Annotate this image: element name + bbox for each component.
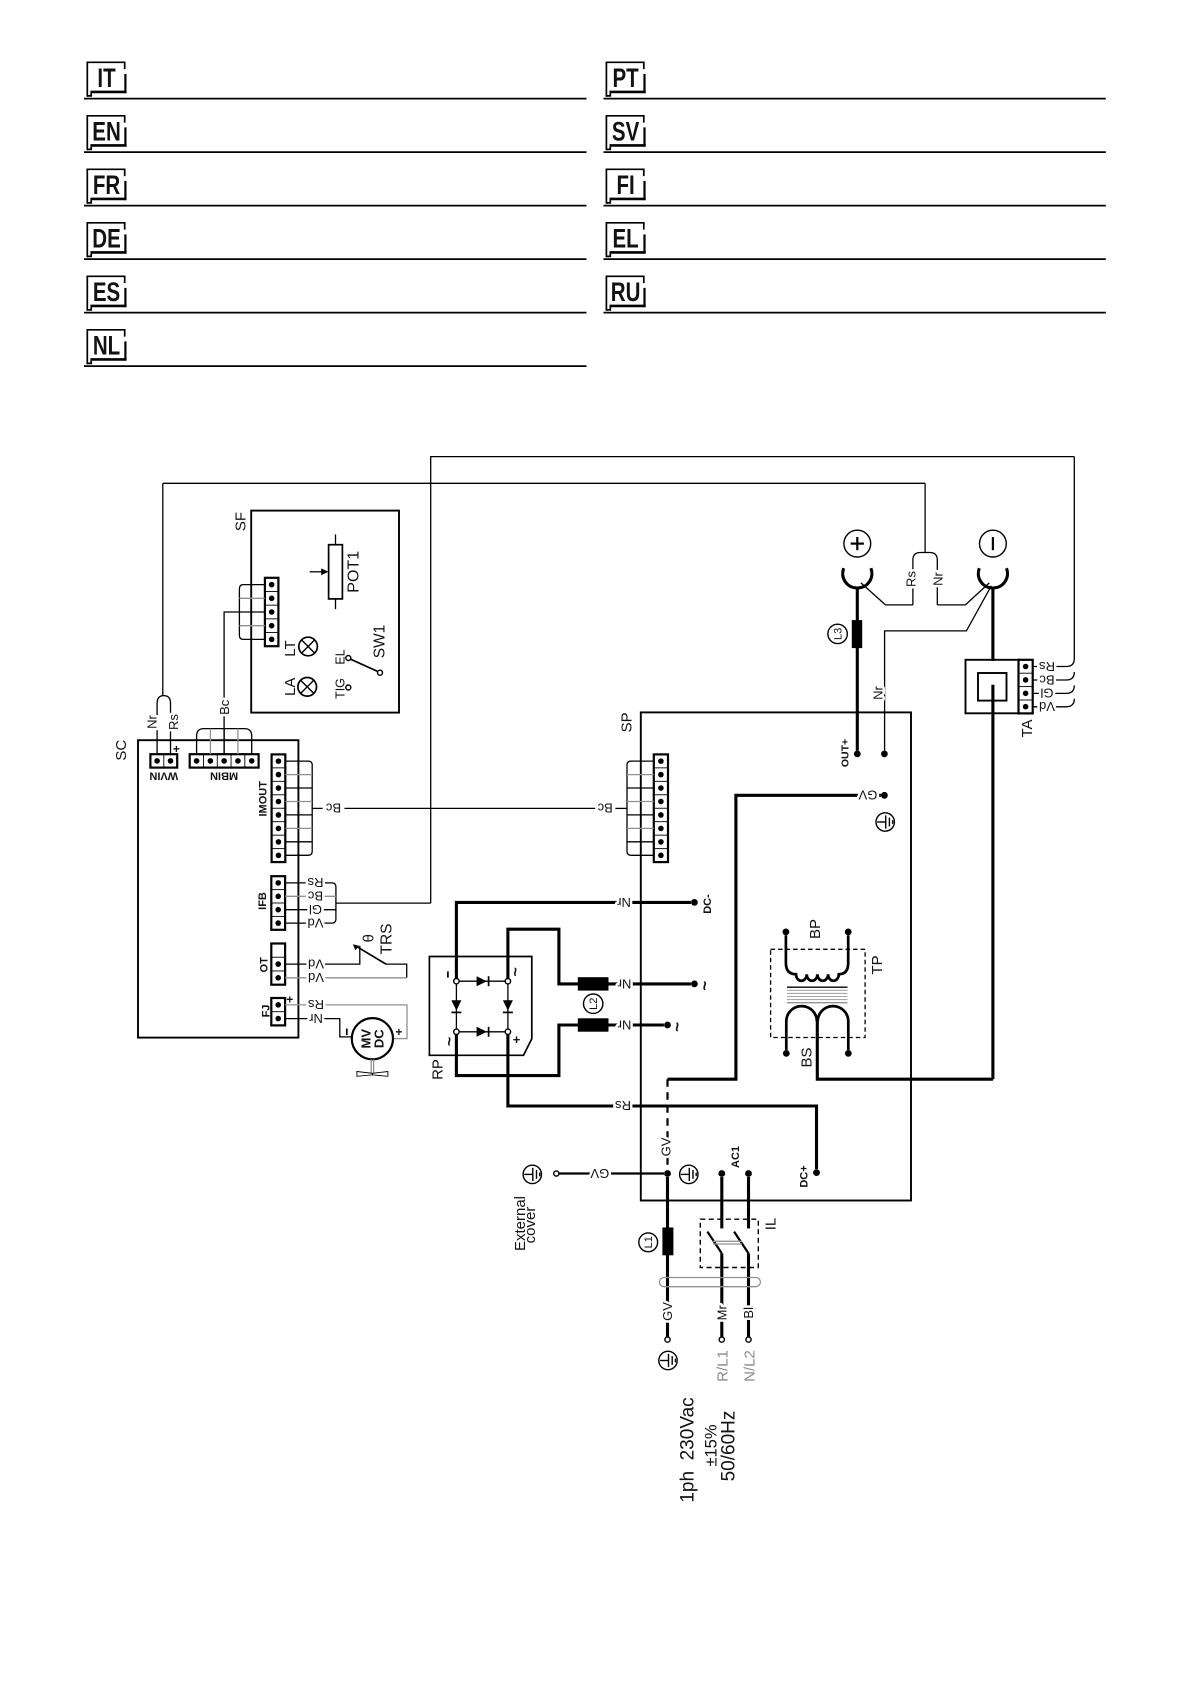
- node ~ bottom of bridge: [454, 1029, 459, 1034]
- wire Rs bridge + to SP DC+: [508, 1035, 817, 1170]
- wire Mr switch to terminal: [720, 1253, 723, 1337]
- rule under FR: [84, 205, 587, 207]
- svg-text:50/60Hz: 50/60Hz: [718, 1411, 739, 1482]
- svg-text:SV: SV: [612, 117, 639, 147]
- wire Nr bridge - to SP DC-: [456, 902, 691, 978]
- SP harness bracket: [627, 761, 654, 855]
- language tab FR: [87, 169, 126, 203]
- inductor L1: [662, 1228, 673, 1256]
- wire Rs FJ pin1 to fan motor +: [285, 1005, 407, 1039]
- svg-text:TIG: TIG: [333, 678, 347, 699]
- svg-text:GV: GV: [590, 1166, 609, 1181]
- socket + dinse: [843, 568, 872, 588]
- svg-text:~: ~: [695, 981, 714, 991]
- switch blade Mr: [707, 1232, 721, 1254]
- svg-text:N/L2: N/L2: [741, 1350, 758, 1382]
- svg-text:AC1: AC1: [730, 1146, 742, 1168]
- indicator lamp LA: [298, 678, 317, 697]
- switch link bar: [713, 1240, 742, 1242]
- svg-text:L2: L2: [588, 998, 600, 1010]
- svg-text:SF: SF: [233, 512, 250, 531]
- svg-text:EN: EN: [92, 117, 120, 147]
- wire - output to TA: [991, 587, 994, 661]
- wire bridge ~ bottom through L2 to SP: [456, 1025, 664, 1076]
- svg-text:+: +: [513, 1032, 521, 1047]
- svg-text:POT1: POT1: [346, 551, 363, 593]
- connector SF (5-pin): [265, 578, 279, 646]
- IFB harness bracket to TA bus: [285, 883, 336, 923]
- junction GV: [881, 792, 888, 799]
- svg-text:EL: EL: [334, 649, 348, 664]
- svg-text:BP: BP: [807, 919, 824, 939]
- svg-text:DE: DE: [92, 224, 121, 254]
- earth symbol at SP top: [876, 813, 894, 831]
- svg-text:R/L1: R/L1: [715, 1350, 732, 1382]
- wire thermostat to OT pin3: [386, 964, 407, 978]
- svg-text:Bc: Bc: [597, 801, 613, 816]
- svg-text:Rs: Rs: [308, 997, 324, 1012]
- svg-text:Vd: Vd: [1039, 699, 1055, 714]
- selector switch SW1: [346, 656, 351, 661]
- wire GV dashed to mains earth: [666, 1079, 668, 1170]
- connector WVIN (2-pin): [150, 754, 177, 767]
- svg-text:LA: LA: [282, 678, 299, 696]
- terminal external cover: [554, 1171, 559, 1176]
- inductor L3: [852, 620, 862, 648]
- svg-text:DC+: DC+: [798, 1165, 810, 1187]
- diode bottom: [477, 1027, 487, 1037]
- label - at motor: [346, 1029, 348, 1036]
- svg-text:OUT+: OUT+: [839, 739, 851, 767]
- svg-text:LT: LT: [282, 640, 299, 656]
- wire OT pin2 to thermostat: [285, 946, 360, 964]
- svg-text:Gl: Gl: [309, 902, 322, 917]
- thermostat TRS: [357, 947, 386, 964]
- svg-text:Rs: Rs: [615, 1098, 631, 1113]
- wire external cover to GV junction: [559, 1172, 664, 1174]
- fan motor MV DC: [352, 1018, 393, 1059]
- svg-text:ES: ES: [93, 277, 120, 307]
- svg-text:Nr: Nr: [144, 714, 159, 728]
- wire Nr FJ pin2 to fan motor -: [285, 1019, 352, 1037]
- svg-text:RU: RU: [611, 277, 641, 307]
- rule under FI: [604, 205, 1106, 207]
- IMOUT harness bracket: [285, 761, 312, 855]
- svg-text:FI: FI: [616, 170, 634, 200]
- wire Bl switch to terminal: [747, 1253, 750, 1337]
- svg-text:TP: TP: [869, 955, 886, 974]
- svg-text:Bc: Bc: [307, 889, 323, 904]
- svg-text:Nr: Nr: [308, 1011, 322, 1026]
- svg-text:FR: FR: [93, 170, 120, 200]
- wire + output through L3: [856, 587, 859, 750]
- junction ~ lower: [664, 1022, 671, 1029]
- language tab NL: [87, 330, 126, 364]
- svg-text:+: +: [395, 1025, 402, 1039]
- rule under DE: [84, 258, 587, 260]
- svg-text:Nr: Nr: [617, 977, 631, 992]
- junction DC-: [691, 899, 698, 906]
- wire Bc IMOUT to SP: [312, 807, 322, 809]
- TA bundle to IFB: [1033, 457, 1075, 667]
- rule under IT: [84, 98, 587, 100]
- wire net Nr/Rs to output sockets: [163, 482, 925, 484]
- rule under PT: [604, 98, 1106, 100]
- secondary winding BS: [786, 1006, 817, 1050]
- svg-text:Vd: Vd: [308, 915, 324, 930]
- terminal GV mains: [665, 1337, 670, 1342]
- svg-text:Bl: Bl: [741, 1307, 756, 1319]
- label L1: [639, 1233, 658, 1252]
- label L2: [584, 994, 603, 1013]
- svg-text:FJ: FJ: [260, 1005, 272, 1018]
- connector TA (4-pin): [1019, 660, 1033, 714]
- junction DC+: [813, 1169, 820, 1176]
- label L3: [828, 624, 847, 643]
- svg-text:Vd: Vd: [308, 956, 324, 971]
- rule under EL: [604, 258, 1106, 260]
- svg-text:Rs: Rs: [166, 714, 181, 730]
- potentiometer POT1: [329, 545, 343, 599]
- terminal Nr sense: [881, 751, 888, 758]
- svg-text:~: ~: [507, 967, 524, 976]
- rule under EN: [84, 151, 587, 153]
- terminal BS left: [783, 1050, 790, 1057]
- terminal Mr mains R/L1: [719, 1337, 724, 1342]
- earth symbol external cover: [523, 1165, 541, 1183]
- svg-text:~: ~: [667, 1022, 686, 1032]
- socket - dinse: [978, 568, 1007, 588]
- svg-text:+: +: [173, 742, 180, 756]
- fan propeller: [370, 1059, 372, 1073]
- rule under SV: [604, 151, 1106, 153]
- terminal BS right: [845, 1050, 852, 1057]
- power board SP box: [641, 712, 911, 1200]
- connector OT (3-pin): [271, 944, 285, 985]
- svg-text:PT: PT: [612, 63, 639, 93]
- rule under RU: [604, 312, 1106, 314]
- mains switch IL dashed box: [700, 1219, 758, 1267]
- TA inner box: [978, 673, 1007, 701]
- rule under NL: [84, 365, 587, 367]
- svg-text:Nr: Nr: [616, 895, 630, 910]
- connector MBIN (5-pin): [190, 754, 259, 767]
- language tab EN: [87, 116, 126, 150]
- rule under ES: [84, 312, 587, 314]
- SF connector harness bracket: [239, 585, 265, 640]
- svg-text:Rs: Rs: [1039, 659, 1055, 674]
- node + of bridge: [505, 1029, 510, 1034]
- cable sleeve: [660, 1278, 761, 1287]
- svg-text:Bc: Bc: [1039, 672, 1055, 687]
- transformer core: [787, 986, 848, 988]
- wire Mr AC1 to mains switch: [720, 1177, 723, 1228]
- svg-text:θ: θ: [361, 934, 378, 942]
- svg-text:Bc: Bc: [325, 801, 341, 816]
- wire Bc from SF pin 3 to MBIN: [224, 612, 265, 754]
- svg-text:L3: L3: [833, 628, 845, 640]
- svg-text:SC: SC: [113, 740, 130, 761]
- indicator lamp LT: [299, 637, 318, 656]
- svg-text:IMOUT: IMOUT: [257, 781, 269, 817]
- choke L2 winding 2: [578, 1018, 609, 1031]
- wire GV junction to mains: [666, 1177, 669, 1337]
- terminal AC1 left: [718, 1170, 725, 1177]
- svg-text:GV: GV: [858, 788, 877, 803]
- diode right: [503, 1000, 513, 1010]
- svg-text:GV: GV: [660, 1302, 675, 1321]
- connector IMOUT (8-pin): [272, 754, 286, 862]
- svg-text:MBIN: MBIN: [210, 769, 238, 781]
- earth symbol at GV junction: [680, 1165, 698, 1183]
- svg-text:TRS: TRS: [378, 924, 395, 955]
- wire Rs fork to + socket: [861, 583, 913, 605]
- switch blade Bl: [734, 1232, 748, 1254]
- svg-text:Rs: Rs: [307, 875, 323, 890]
- output terminal + circle: [844, 530, 871, 557]
- wire Nr fork to - socket: [937, 583, 989, 605]
- svg-text:GV: GV: [658, 1137, 673, 1156]
- svg-text:cover: cover: [522, 1207, 539, 1244]
- connector FJ (2-pin): [271, 998, 285, 1025]
- svg-text:Nr: Nr: [931, 571, 946, 585]
- transformer TP dashed box: [771, 949, 866, 1037]
- wire fork Nr/Rs to WVIN: [162, 483, 164, 695]
- bridge internal wires: [456, 980, 508, 982]
- control panel SF box: [251, 511, 399, 713]
- output terminal - circle: [980, 530, 1007, 557]
- terminal BP left: [783, 929, 790, 936]
- language tab RU: [606, 276, 645, 310]
- terminal Bl mains N/L2: [746, 1337, 751, 1342]
- svg-text:SW1: SW1: [371, 625, 388, 659]
- choke L2 winding 1: [578, 977, 609, 990]
- MBIN harness bracket: [197, 729, 252, 755]
- wire IFB bus to top: [336, 902, 431, 904]
- wire Nr sense from - socket to SP: [885, 586, 992, 751]
- connector SP (8-pin): [654, 754, 668, 862]
- terminal AC1 right: [745, 1170, 752, 1177]
- node ~ top of bridge: [505, 979, 510, 984]
- language tab FI: [606, 169, 645, 203]
- language tab IT: [87, 62, 126, 96]
- earth symbol mains: [659, 1351, 677, 1369]
- wire GV inside SP: [668, 795, 881, 1079]
- node - of bridge: [454, 979, 459, 984]
- svg-text:L1: L1: [643, 1236, 655, 1248]
- terminal OUT+: [854, 751, 861, 758]
- svg-text:TA: TA: [1019, 719, 1036, 737]
- svg-text:OT: OT: [258, 957, 270, 973]
- svg-text:RP: RP: [429, 1059, 446, 1080]
- svg-text:Gl: Gl: [1040, 686, 1053, 701]
- wire BS centre tap to minus output: [817, 1021, 993, 1079]
- terminal BP right: [845, 929, 852, 936]
- svg-text:Mr: Mr: [714, 1305, 729, 1321]
- label - at bridge: [447, 971, 449, 977]
- svg-text:DC-: DC-: [702, 894, 714, 914]
- svg-text:1ph 230Vac: 1ph 230Vac: [677, 1397, 698, 1502]
- language tab SV: [606, 116, 645, 150]
- wire net IFB-TA top bus: [431, 457, 1075, 903]
- primary winding BP: [786, 935, 848, 981]
- svg-text:IFB: IFB: [257, 892, 269, 910]
- junction GV earth: [664, 1170, 671, 1177]
- svg-text:EL: EL: [612, 224, 638, 254]
- connector IFB (4-pin): [271, 876, 285, 930]
- language tab ES: [87, 276, 126, 310]
- svg-text:IL: IL: [762, 1218, 779, 1231]
- svg-text:Nr: Nr: [871, 685, 886, 699]
- svg-text:BS: BS: [798, 1047, 815, 1067]
- control board SC box: [138, 740, 298, 1037]
- svg-text:SP: SP: [618, 712, 635, 732]
- language tab PT: [606, 62, 645, 96]
- bridge rectifier RP box: [429, 957, 531, 1056]
- svg-text:DC: DC: [371, 1029, 386, 1048]
- svg-text:Bc: Bc: [217, 699, 232, 715]
- diode left: [451, 1000, 461, 1010]
- wire Bl AC1 to mains switch: [747, 1177, 750, 1228]
- svg-text:IT: IT: [97, 63, 116, 93]
- junction ~ upper: [691, 981, 698, 988]
- svg-text:Rs: Rs: [904, 571, 919, 587]
- language tab EL: [606, 223, 645, 257]
- wire fork Rs/Nr from control: [924, 483, 926, 552]
- current transformer TA outer box: [966, 660, 1019, 714]
- wire bridge ~ top through L2 to SP: [508, 929, 691, 984]
- svg-text:Nr: Nr: [617, 1018, 631, 1033]
- language tab DE: [87, 223, 126, 257]
- diode top: [477, 976, 487, 986]
- svg-text:Vd: Vd: [308, 970, 324, 985]
- svg-text:NL: NL: [93, 331, 120, 361]
- svg-text:WVIN: WVIN: [149, 769, 178, 781]
